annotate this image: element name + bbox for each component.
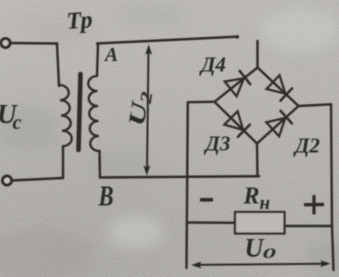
wire secondary top vertical [97, 44, 98, 77]
wire secondary bottom vertical [98, 151, 101, 178]
wire right node to plus rail [299, 104, 332, 106]
transformer primary winding [59, 85, 72, 146]
wire B horizontal (bottom) [100, 176, 259, 177]
bridge arm left-bottom [215, 102, 258, 144]
wire minus rail to resistor [187, 221, 235, 224]
svg-text:Д3: Д3 [204, 132, 231, 156]
wire primary top vertical [57, 44, 59, 87]
bridge top stub [256, 41, 258, 68]
resistor RH box [235, 212, 285, 234]
bridge arm top-right [258, 68, 299, 107]
svg-text:0: 0 [263, 245, 277, 261]
label U2 (rotated) [124, 89, 156, 128]
wire top-left terminal to primary [10, 42, 57, 45]
wire minus vertical rail [187, 102, 188, 268]
wire primary bottom vertical [62, 146, 64, 178]
diode D3 [224, 111, 243, 130]
bridge bottom stub [256, 144, 259, 177]
bridge arm bottom-right [257, 106, 299, 144]
wire plus vertical rail [331, 104, 334, 270]
diode D1 (top right) [267, 75, 286, 94]
minus sign [200, 198, 213, 202]
wire left node to minus rail [188, 101, 215, 104]
terminal top-left [1, 39, 10, 48]
plus sign [306, 203, 323, 207]
transformer secondary winding [88, 76, 99, 151]
wire resistor to plus rail [285, 225, 332, 227]
diode D4 [225, 78, 244, 96]
terminal bottom-left [3, 176, 12, 185]
svg-text:В: В [98, 180, 114, 212]
wire bottom-left terminal to primary [12, 178, 64, 181]
svg-text:Д2: Д2 [293, 134, 320, 158]
diode D2 [266, 118, 285, 136]
U2 dimension arrow [143, 45, 152, 176]
svg-text:A: A [103, 45, 118, 66]
bridge arm left-top [215, 68, 258, 102]
svg-text:Д4: Д4 [199, 53, 226, 77]
transformer core [79, 74, 81, 150]
svg-text:U: U [245, 234, 265, 263]
svg-text:Тр: Тр [66, 7, 94, 35]
wire A horizontal (top) [97, 37, 238, 44]
U0 dimension arrow [191, 260, 330, 268]
